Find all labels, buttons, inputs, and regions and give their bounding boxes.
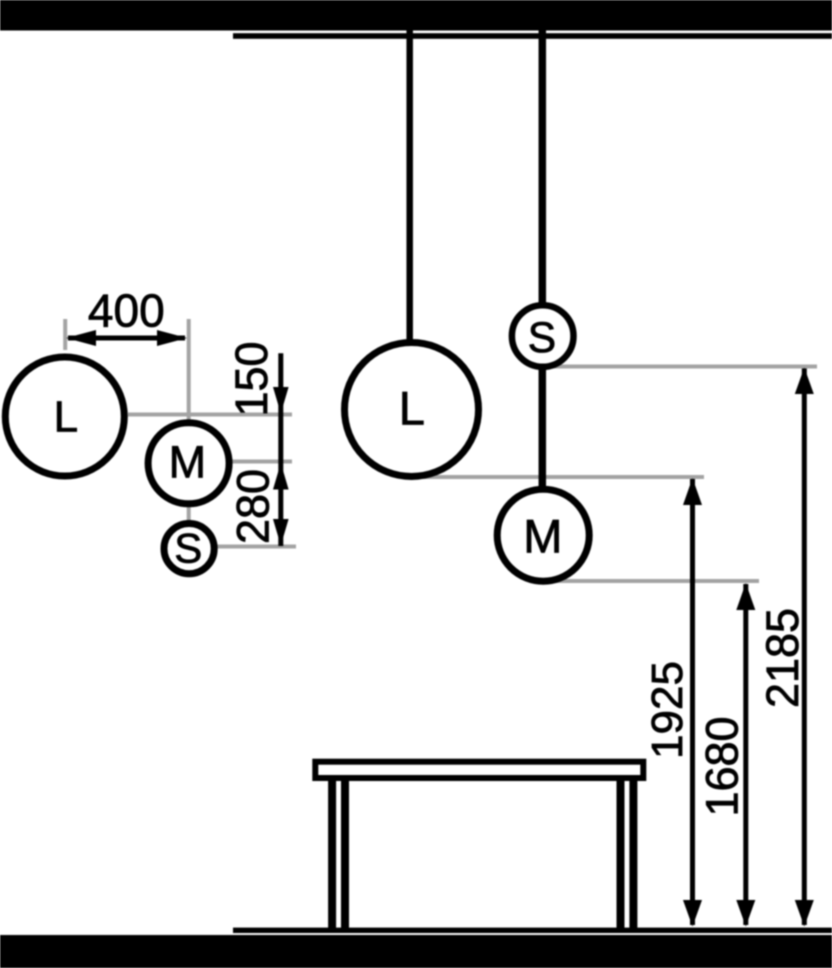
dimension arrow 2185	[795, 368, 814, 927]
extension line left (400 dim, at L center x)	[63, 319, 67, 350]
svg-text:L: L	[54, 393, 78, 442]
detail lamp L	[5, 357, 124, 476]
detail lamp S	[164, 524, 214, 574]
floor line	[233, 928, 832, 933]
wire pendant S	[539, 30, 547, 336]
node line at pendant L bottom level	[414, 475, 704, 479]
wire pendant L	[406, 30, 413, 409]
dimension line 150/280 vertical	[273, 353, 289, 546]
ceiling slab	[0, 0, 832, 31]
svg-text:1925: 1925	[643, 661, 692, 759]
svg-text:280: 280	[228, 469, 279, 544]
svg-text:S: S	[528, 315, 556, 362]
svg-text:2185: 2185	[757, 608, 808, 708]
svg-text:S: S	[174, 525, 202, 572]
dimension arrow 1925	[683, 478, 702, 927]
svg-text:M: M	[523, 510, 562, 563]
node line at M center level	[231, 460, 292, 464]
node line at pendant S bottom level	[545, 365, 817, 369]
floor slab	[0, 935, 832, 968]
node line at L center level	[128, 413, 292, 417]
dimension arrow 1680	[736, 583, 755, 927]
table leg right	[617, 778, 625, 930]
svg-text:M: M	[169, 436, 207, 487]
svg-text:L: L	[399, 381, 425, 434]
pendant lamp S	[512, 305, 574, 367]
pendant lamp L	[345, 343, 479, 477]
node line at pendant M bottom level	[545, 579, 759, 583]
svg-text:1680: 1680	[697, 716, 748, 816]
svg-text:400: 400	[88, 285, 165, 337]
wire S to M	[539, 336, 547, 535]
extension line right (400 dim, at M/S center x)	[187, 319, 191, 521]
pendant lamp M	[497, 489, 589, 581]
svg-text:150: 150	[226, 341, 277, 416]
dimension 400 arrow	[66, 330, 187, 346]
ceiling line	[233, 33, 832, 39]
node line at S center level	[216, 545, 296, 549]
table leg left	[328, 778, 336, 930]
detail lamp M	[148, 423, 229, 504]
table top	[315, 762, 643, 778]
